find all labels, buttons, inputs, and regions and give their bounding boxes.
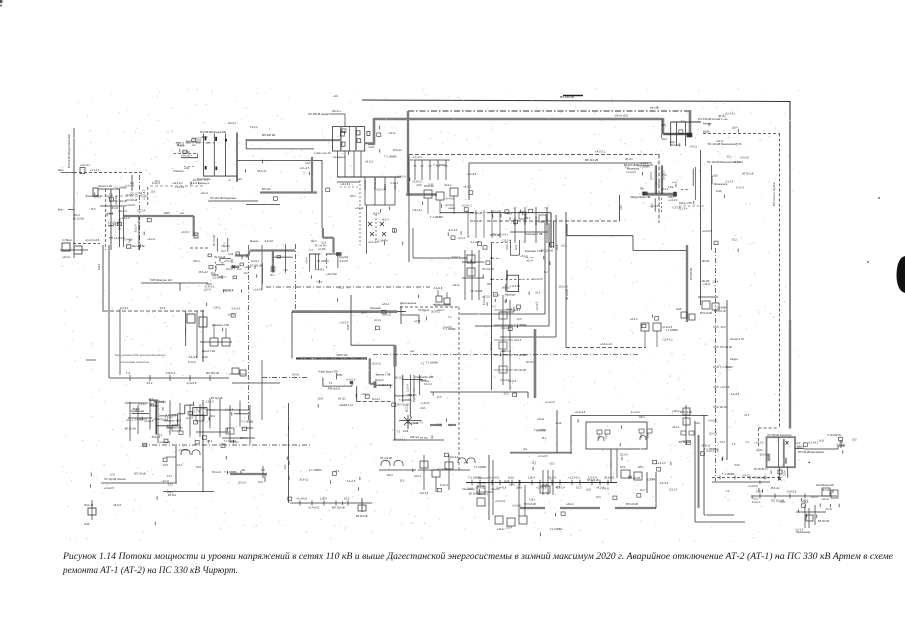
svg-text:+8,2-4: +8,2-4 — [381, 219, 389, 222]
svg-text:Аэропорт: Аэропорт — [505, 294, 517, 297]
svg-text:Мал+: Мал+ — [58, 169, 65, 172]
dust dot 2 — [867, 261, 869, 263]
svg-text:+0,4+0,5: +0,4+0,5 — [204, 285, 214, 288]
Махачкала-330 junction — [624, 164, 705, 212]
svg-text:+24-11: +24-11 — [689, 145, 697, 148]
svg-text:6,3-2,4: 6,3-2,4 — [206, 400, 214, 403]
feeder y=201 w/ label — [208, 200, 258, 202]
tie y=189 — [98, 188, 120, 190]
svg-text:-3,4+0,8: -3,4+0,8 — [707, 419, 717, 422]
svg-text:ВЛ 110 кВ: ВЛ 110 кВ — [398, 403, 410, 406]
riser x=322 — [321, 160, 323, 228]
generator unit G2 — [639, 429, 652, 440]
wire elbow x=663 — [662, 118, 665, 134]
svg-text:6,3-2,4: 6,3-2,4 — [398, 175, 406, 178]
svg-text:Заманкул 1 Во: Заманкул 1 Во — [212, 324, 230, 327]
svg-text:6,3-2,4: 6,3-2,4 — [647, 478, 655, 481]
svg-text:112-0,4: 112-0,4 — [166, 371, 176, 375]
svg-text:Т-1 16МВА: Т-1 16МВА — [430, 215, 443, 219]
svg-text:пос2: пос2 — [237, 179, 243, 181]
Ардон step chain — [131, 398, 250, 444]
svg-text:+12,4-6,1: +12,4-6,1 — [808, 441, 819, 444]
elbow y=258 — [219, 259, 221, 263]
thick leg x=272.9 — [272, 251, 274, 273]
left feeder x=74 — [73, 128, 75, 245]
svg-text:+24-11: +24-11 — [742, 475, 750, 478]
wire elbow x=374 into Чирюрт — [373, 118, 376, 144]
svg-text:10,5: 10,5 — [399, 480, 404, 483]
bus y=483 west — [101, 482, 177, 484]
svg-text:10,5: 10,5 — [204, 178, 209, 181]
svg-text:+19: +19 — [333, 94, 338, 98]
svg-text:-15,2: -15,2 — [661, 138, 667, 141]
dashed label row y=186 left — [150, 185, 205, 187]
svg-text:112-0,4: 112-0,4 — [669, 489, 678, 492]
drop x=611 — [610, 449, 612, 483]
svg-text:-3,4+0,8: -3,4+0,8 — [224, 409, 234, 412]
svg-text:ВЛ 110 кВ: ВЛ 110 кВ — [566, 289, 569, 300]
svg-text:Т-1 16МВА: Т-1 16МВА — [665, 329, 678, 332]
svg-text:+8,2-4: +8,2-4 — [73, 215, 80, 217]
svg-text:+1,6-0,9: +1,6-0,9 — [175, 186, 185, 189]
substation ПС-330 Моздок group — [173, 131, 243, 185]
svg-text:2х16: 2х16 — [542, 484, 548, 487]
svg-text:118,4: 118,4 — [226, 268, 232, 271]
tie y=312 — [500, 311, 514, 313]
drop x=366.5 — [366, 205, 368, 254]
riser x=312 thick — [311, 157, 313, 192]
feeder column x=203 — [202, 310, 204, 362]
svg-text:Т-2: Т-2 — [544, 207, 548, 210]
svg-text:+1,4: +1,4 — [672, 182, 677, 184]
column pair x=510/519 — [509, 240, 511, 255]
svg-text:+24-11: +24-11 — [537, 418, 545, 421]
svg-text:ПС 110 кВ: ПС 110 кВ — [131, 192, 143, 195]
svg-text:Радуга: Радуга — [730, 358, 739, 361]
drop x=410.3 lower — [409, 402, 411, 417]
Приморская group — [796, 505, 829, 534]
svg-text:-3,4+0,8: -3,4+0,8 — [186, 381, 197, 385]
dash-dot y=377.4 west — [262, 376, 309, 378]
Гергебиль station — [433, 287, 451, 305]
feeder bank in loop frame — [410, 155, 450, 180]
svg-text:+8,2-4: +8,2-4 — [372, 213, 380, 216]
svg-text:35,6+12: 35,6+12 — [393, 149, 403, 152]
feeder column x=119.5 — [119, 189, 121, 247]
svg-text:112-0,4: 112-0,4 — [502, 239, 511, 242]
svg-text:10,5: 10,5 — [576, 485, 582, 489]
svg-text:Т-2: Т-2 — [309, 249, 313, 252]
svg-text:35,6+12: 35,6+12 — [257, 170, 267, 173]
Ардон dense cluster — [125, 398, 255, 444]
svg-text:-1,4+0,3: -1,4+0,3 — [630, 410, 640, 414]
svg-text:700 кч.: 700 кч. — [193, 260, 201, 263]
svg-text:+0,4+0,5: +0,4+0,5 — [702, 230, 712, 233]
dashed drop x=215.5 — [215, 262, 217, 273]
svg-text:Чикола 1 Во: Чикола 1 Во — [98, 185, 113, 188]
tie y=440 — [393, 439, 444, 441]
svg-text:6,3-2,4: 6,3-2,4 — [134, 224, 137, 232]
feeder x=700 long — [700, 150, 702, 305]
feeder x=262.4 — [261, 263, 263, 284]
svg-text:+24-11: +24-11 — [355, 206, 364, 210]
svg-text:Т-1 16МВА: Т-1 16МВА — [550, 528, 563, 531]
svg-text:Эрпели 1 ПВ: Эрпели 1 ПВ — [376, 373, 391, 376]
grey dash pair y=425 — [430, 424, 442, 426]
svg-text:112-0,4: 112-0,4 — [192, 179, 201, 182]
svg-text:ПС 330 кВ Артем 1(н): ПС 330 кВ Артем 1(н) — [768, 434, 792, 437]
svg-text:ВЛ 110 кВ: ВЛ 110 кВ — [546, 214, 549, 225]
svg-text:+8,2-4: +8,2-4 — [672, 426, 680, 429]
svg-text:кВ 113: кВ 113 — [625, 158, 633, 161]
svg-text:+1,6-0,9: +1,6-0,9 — [502, 350, 512, 353]
svg-text:35,6+12: 35,6+12 — [760, 454, 770, 457]
tie y=385.1 — [376, 384, 393, 386]
svg-text:кВ 113: кВ 113 — [702, 260, 710, 263]
svg-text:Т-1 16МВА: Т-1 16МВА — [309, 469, 322, 472]
svg-text:112-0,4: 112-0,4 — [372, 398, 381, 401]
small west station y=512 — [84, 360, 96, 526]
svg-text:+0,4+0,5: +0,4+0,5 — [533, 278, 543, 281]
svg-text:Т-2: Т-2 — [158, 434, 162, 437]
Гуниб cluster — [418, 455, 475, 495]
feeder column x=120 — [119, 309, 121, 375]
feeder column x=197 — [196, 311, 198, 358]
svg-text:Бек+: Бек+ — [58, 209, 64, 212]
svg-text:-3,4+0,8: -3,4+0,8 — [730, 393, 740, 396]
tie y=383 — [232, 382, 280, 384]
svg-text:+0щ Пщб: +0щ Пщб — [326, 273, 337, 276]
svg-text:ЛЭП Фиагдон 110: ЛЭП Фиагдон 110 — [150, 278, 172, 282]
svg-text:Атлан Зрлд +1Пч: Атлан Зрлд +1Пч — [318, 370, 339, 373]
tie y=243.4 — [73, 242, 100, 244]
svg-text:2х16: 2х16 — [163, 419, 169, 422]
ГЭС complex Чирюрт — [306, 245, 348, 284]
feeder x=147.8 dashed — [147, 187, 149, 207]
tie y=152.5 — [246, 148, 314, 150]
svg-text:+12,4-6,1: +12,4-6,1 — [143, 189, 146, 200]
svg-text:-3,4+0,8: -3,4+0,8 — [346, 480, 356, 483]
svg-text:Т-1 16МВА: Т-1 16МВА — [114, 186, 127, 189]
svg-text:6,3-2,4: 6,3-2,4 — [188, 361, 196, 364]
svg-text:ВЛ отключ. Артем: ВЛ отключ. Артем — [772, 183, 776, 206]
svg-text:+1,6-0,9: +1,6-0,9 — [120, 217, 130, 220]
dashed tie y=311 — [104, 310, 205, 312]
svg-text:Т-1 16МВА: Т-1 16МВА — [514, 324, 527, 327]
svg-text:Т-1 16МВА: Т-1 16МВА — [514, 354, 527, 357]
svg-text:ВЛ 110 кВ: ВЛ 110 кВ — [714, 310, 726, 313]
svg-text:+24-11: +24-11 — [602, 488, 610, 491]
dash-dot y=142.9 — [176, 142, 215, 144]
svg-text:118,4: 118,4 — [528, 476, 535, 480]
svg-text:+8,2-4: +8,2-4 — [810, 496, 818, 499]
svg-text:Т-2: Т-2 — [192, 138, 196, 141]
svg-text:+24-11: +24-11 — [452, 284, 460, 287]
svg-text:35,6+12: 35,6+12 — [559, 286, 569, 289]
svg-text:-3,4+0,8: -3,4+0,8 — [786, 490, 797, 494]
feeder x=285.5 — [285, 244, 287, 273]
svg-text:+8,2-4: +8,2-4 — [437, 309, 445, 312]
svg-text:-24,0+15,0: -24,0+15,0 — [614, 114, 628, 118]
svg-text:2х16: 2х16 — [516, 244, 518, 250]
svg-text:кВ 113: кВ 113 — [483, 296, 491, 299]
svg-text:-15,2: -15,2 — [720, 326, 726, 329]
svg-text:пос+дашед: пос+дашед — [333, 157, 346, 159]
grey stub x=507 — [506, 270, 508, 280]
thick feeder x=687 — [686, 245, 688, 322]
svg-text:+4+о 20 ч: +4+о 20 ч — [181, 155, 192, 158]
svg-text:-15,2: -15,2 — [731, 239, 737, 242]
Аэропорт station box — [505, 275, 519, 296]
svg-text:I ч/б: I ч/б — [283, 270, 288, 272]
svg-text:-15,2: -15,2 — [148, 398, 154, 401]
svg-text:Сигнал 1 Ю: Сигнал 1 Ю — [730, 338, 744, 341]
svg-text:ВЛ 110 кВ: ВЛ 110 кВ — [587, 479, 599, 482]
svg-text:ВЛ 330 кВ: ВЛ 330 кВ — [689, 268, 693, 280]
svg-text:118,4: 118,4 — [361, 311, 368, 314]
svg-text:6,3-2,4: 6,3-2,4 — [752, 501, 760, 504]
svg-text:112-0,4: 112-0,4 — [478, 482, 487, 485]
svg-text:+24-11: +24-11 — [200, 192, 208, 195]
svg-text:6,3-2,4: 6,3-2,4 — [424, 383, 432, 386]
svg-text:112-0,4: 112-0,4 — [450, 456, 459, 459]
svg-text:-15,2: -15,2 — [726, 156, 732, 159]
svg-text:+0,4Т: +0,4Т — [414, 320, 421, 323]
svg-text:кВ 113: кВ 113 — [419, 379, 427, 382]
svg-text:118,4: 118,4 — [349, 195, 356, 198]
svg-text:ВЛ 110 кВ: ВЛ 110 кВ — [679, 441, 691, 444]
svg-text:+1,6-0,9: +1,6-0,9 — [720, 386, 730, 389]
svg-text:+12,4-6,1: +12,4-6,1 — [725, 112, 736, 115]
loop frame y=163 — [469, 162, 652, 164]
feeder x=262 lower — [261, 360, 263, 420]
dashed pair y=477.5 — [712, 477, 779, 479]
svg-text:-15,2: -15,2 — [491, 233, 497, 236]
svg-text:Заманкул ЮВч: Заманкул ЮВч — [166, 427, 183, 430]
svg-text:Т-1 16МВА: Т-1 16МВА — [720, 366, 733, 369]
svg-text:ВЛ 110 кВ Каспийская: ВЛ 110 кВ Каспийская — [798, 451, 824, 454]
svg-text:ПС 330 кВ Чирюрт: ПС 330 кВ Чирюрт — [308, 113, 330, 116]
thick leg x=369.8 — [369, 358, 371, 384]
svg-text:6,3-2,4: 6,3-2,4 — [391, 182, 399, 185]
svg-text:118,4: 118,4 — [529, 498, 536, 501]
station box x=190 y=318 — [187, 314, 195, 323]
svg-text:118,4: 118,4 — [637, 466, 644, 469]
svg-text:10,5: 10,5 — [744, 414, 749, 417]
svg-text:кВ 113: кВ 113 — [365, 161, 373, 164]
below box cluster — [754, 467, 788, 480]
tie y=345.2 — [351, 344, 395, 346]
dashed elbow into Артем — [759, 427, 779, 429]
svg-text:кВ 113: кВ 113 — [502, 286, 510, 289]
svg-text:+0,4+0,5: +0,4+0,5 — [748, 485, 758, 488]
svg-text:-15,2: -15,2 — [196, 138, 202, 141]
svg-text:+0,4+0,5: +0,4+0,5 — [650, 205, 660, 208]
svg-text:+12,4-6,1: +12,4-6,1 — [436, 468, 447, 471]
svg-text:Т-2: Т-2 — [745, 441, 749, 444]
svg-text:ВЛ 110 кВ Моздок-Малгобек: ВЛ 110 кВ Моздок-Малгобек — [67, 133, 71, 168]
Аэропорт drop x=619.4 — [618, 195, 620, 221]
svg-text:10,5: 10,5 — [160, 306, 166, 310]
svg-text:ВЛ 110 кВ: ВЛ 110 кВ — [629, 477, 641, 480]
bus node trio y=480 — [540, 470, 553, 495]
feeder x=698.5 thick grey — [698, 435, 700, 508]
svg-text:-15,2: -15,2 — [146, 381, 153, 385]
riser x=656 — [655, 472, 657, 508]
svg-text:+0,4+0,5: +0,4+0,5 — [308, 506, 319, 510]
svg-text:пос: пос — [410, 350, 415, 353]
svg-text:ПС 110 кВ Чикола: ПС 110 кВ Чикола — [104, 477, 126, 481]
svg-text:2х16: 2х16 — [655, 182, 661, 185]
svg-text:+12,4-6,1: +12,4-6,1 — [510, 285, 521, 288]
tie y=138.5 Моздок-Чирюрт thick — [246, 139, 340, 141]
feeder y=204.5 — [246, 204, 280, 206]
svg-text:118,4: 118,4 — [732, 126, 739, 129]
svg-text:Т-2: Т-2 — [625, 167, 629, 170]
generator unit G3 — [681, 431, 694, 443]
svg-text:+8,2-4: +8,2-4 — [126, 419, 134, 422]
feeder x=394.8 dark — [394, 367, 396, 441]
feeder x=203 long — [202, 400, 204, 492]
svg-text:10,5: 10,5 — [517, 318, 522, 321]
svg-text:ПС 110 кВ: ПС 110 кВ — [380, 457, 392, 460]
svg-text:+8,2-4: +8,2-4 — [630, 317, 638, 321]
svg-text:+12,4-6,1: +12,4-6,1 — [172, 182, 183, 185]
loop bottom y=221 dashed — [487, 220, 620, 222]
svg-text:ПС 110 кВ: ПС 110 кВ — [214, 256, 226, 259]
svg-text:+8,2-4: +8,2-4 — [414, 475, 422, 478]
svg-text:-15,2: -15,2 — [166, 475, 172, 478]
svg-text:-3,4+0,8: -3,4+0,8 — [470, 241, 480, 244]
svg-text:ВЛ 110 кВ: ВЛ 110 кВ — [332, 506, 345, 510]
svg-text:112-0,4: 112-0,4 — [221, 245, 230, 248]
svg-text:+24,4+14: +24,4+14 — [600, 342, 612, 346]
svg-text:кВ 113: кВ 113 — [94, 196, 102, 199]
Турали group — [672, 405, 690, 445]
bus y=216 thick grey — [124, 215, 194, 217]
svg-text:+8,2-4: +8,2-4 — [382, 302, 390, 306]
svg-text:10,5: 10,5 — [344, 497, 350, 501]
svg-text:112-0,4: 112-0,4 — [238, 482, 247, 485]
svg-text:пос: пос — [523, 448, 528, 451]
svg-text:ПС 110 кВ: ПС 110 кВ — [407, 422, 419, 425]
svg-text:+обр: +обр — [184, 168, 190, 170]
svg-text:+24-11: +24-11 — [716, 140, 724, 143]
station box Малгобек — [93, 188, 98, 196]
riser x=408 thick grey — [407, 111, 409, 195]
svg-text:10,5: 10,5 — [437, 396, 442, 399]
svg-text:35,6+12: 35,6+12 — [84, 504, 94, 507]
tie y=206 — [100, 205, 126, 207]
svg-text:кВ 113: кВ 113 — [720, 406, 728, 409]
svg-text:2605: 2605 — [164, 212, 170, 215]
substation ПС 330 кВ Чирюрт — [308, 111, 374, 177]
svg-text:Т-2: Т-2 — [681, 120, 685, 123]
west leg x=292 — [291, 312, 293, 359]
svg-text:-15,2: -15,2 — [154, 180, 160, 183]
svg-text:Т-1 16МВА: Т-1 16МВА — [637, 166, 650, 169]
bus-end station x=236 — [229, 368, 246, 376]
svg-text:ПС 110 кВ: ПС 110 кВ — [514, 369, 526, 372]
svg-text:Т-1 16МВА: Т-1 16МВА — [316, 260, 329, 263]
svg-text:1 ТТВ: 1 ТТВ — [194, 411, 201, 414]
nested step y=235.7 — [566, 224, 568, 236]
svg-text:-3,4+0,8: -3,4+0,8 — [264, 240, 274, 243]
svg-text:-15,2: -15,2 — [206, 440, 212, 443]
svg-text:+12,4-6,1: +12,4-6,1 — [444, 204, 455, 207]
tie bracket x=246.2 — [245, 139, 247, 149]
tie y=157.7 — [181, 157, 198, 159]
x=74 lower dash — [73, 246, 75, 259]
tie y=257.1 — [274, 256, 293, 258]
svg-text:+12,4-6,1: +12,4-6,1 — [662, 339, 673, 342]
svg-text:Р55 №17а: Р55 №17а — [328, 388, 341, 391]
Гоцатль star junction — [399, 415, 428, 440]
arrow element x=263 y=470 — [258, 466, 265, 484]
drop x=413 — [412, 228, 414, 258]
svg-text:2х16: 2х16 — [467, 488, 473, 491]
svg-text:2х16: 2х16 — [734, 464, 740, 467]
svg-text:2х16: 2х16 — [318, 398, 324, 401]
svg-text:+8,2-4: +8,2-4 — [661, 188, 669, 191]
svg-text:пос15: пос15 — [798, 447, 805, 449]
svg-text:-15,2: -15,2 — [243, 272, 249, 275]
svg-text:-15,2: -15,2 — [284, 464, 287, 470]
svg-text:112-0,4: 112-0,4 — [651, 172, 653, 180]
svg-text:35,6+12: 35,6+12 — [299, 478, 309, 481]
tie y=297 — [698, 296, 718, 298]
svg-text:+0,4+0,5: +0,4+0,5 — [575, 410, 586, 414]
svg-text:112-0,4: 112-0,4 — [709, 432, 718, 435]
svg-text:Ст Верх: Ст Верх — [62, 238, 72, 242]
thick feeder x=535 — [534, 329, 537, 398]
svg-text:112-0,4: 112-0,4 — [118, 210, 127, 213]
tie y=283 Фиагдон — [141, 282, 208, 284]
svg-text:+0,4+0,5: +0,4+0,5 — [495, 500, 505, 503]
svg-text:1ПВт: 1ПВт — [337, 374, 344, 377]
svg-text:+1,6-0,9: +1,6-0,9 — [126, 204, 136, 207]
svg-text:112-0,4: 112-0,4 — [251, 260, 260, 263]
svg-text:-15,2: -15,2 — [719, 441, 725, 444]
dashed tie y=196 — [100, 195, 150, 197]
svg-text:-15,2: -15,2 — [541, 437, 547, 440]
svg-text:-3,4+0,8: -3,4+0,8 — [339, 260, 349, 263]
svg-text:Т-1 16МВА: Т-1 16МВА — [443, 328, 456, 331]
generator unit G1 — [597, 430, 610, 441]
svg-text:6,3-2,4: 6,3-2,4 — [120, 306, 129, 310]
svg-text:+8,2-4: +8,2-4 — [825, 508, 833, 511]
svg-text:кВ 113: кВ 113 — [822, 489, 830, 492]
svg-text:112-0,4: 112-0,4 — [218, 276, 227, 279]
svg-text:+12,4-6,1: +12,4-6,1 — [395, 439, 406, 442]
diagram right border x=790 — [789, 101, 791, 320]
svg-text:118,4: 118,4 — [387, 474, 394, 477]
svg-text:+0,4+0,5: +0,4+0,5 — [466, 173, 476, 176]
bus y=496 south-east — [751, 495, 837, 497]
svg-text:112-0,4: 112-0,4 — [376, 188, 385, 191]
svg-text:+0,4+0,5: +0,4+0,5 — [447, 229, 457, 232]
tie y=452.7 grey — [510, 452, 572, 454]
svg-text:112-0,4: 112-0,4 — [407, 384, 409, 392]
svg-text:10,5: 10,5 — [753, 497, 758, 500]
svg-text:+0,4+0,5: +0,4+0,5 — [104, 487, 114, 490]
svg-text:+дашед+1: +дашед+1 — [198, 183, 210, 185]
svg-text:10,5: 10,5 — [555, 486, 560, 489]
svg-text:Т-2: Т-2 — [492, 305, 496, 308]
svg-text:112-0,4: 112-0,4 — [420, 492, 429, 495]
drop x=185.7 — [185, 311, 187, 346]
svg-text:-15,2: -15,2 — [338, 287, 344, 290]
